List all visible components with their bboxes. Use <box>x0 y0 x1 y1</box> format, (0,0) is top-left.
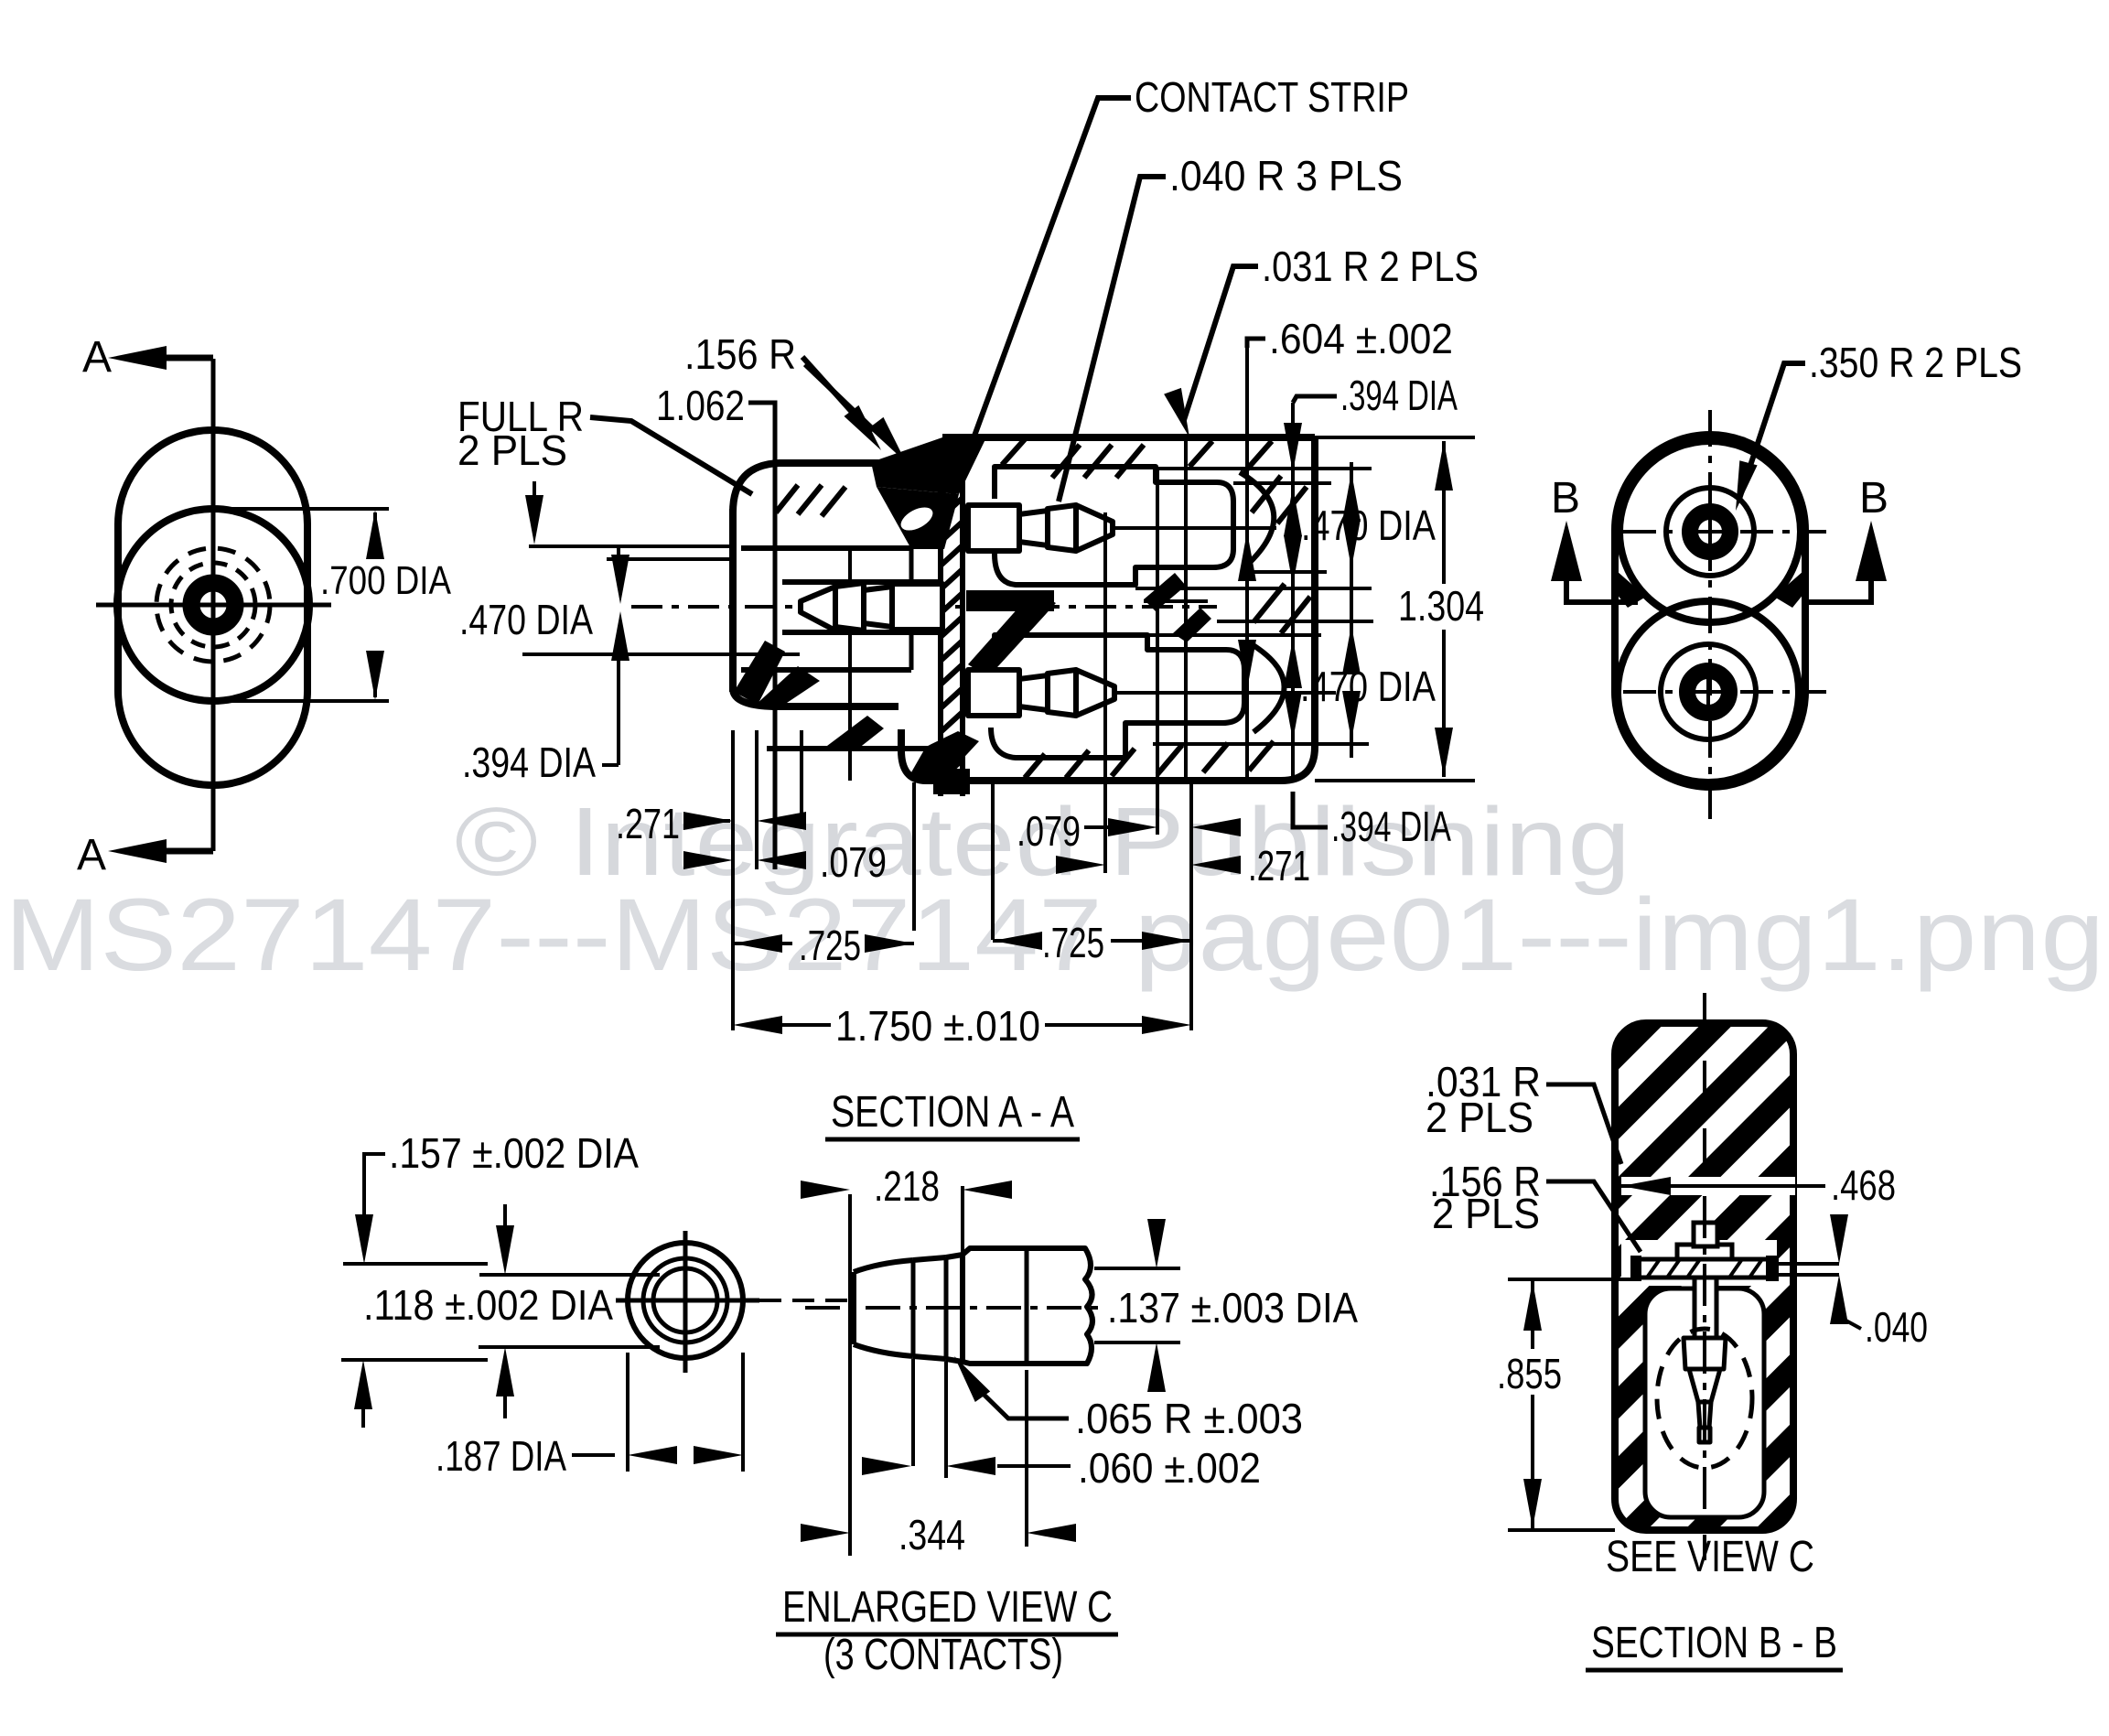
vertical ext x1265 inside body <box>1156 469 1159 781</box>
ext line x801 <box>731 730 735 1030</box>
lower contact centerline <box>1114 691 1336 695</box>
strip end blobs <box>1630 1256 1641 1281</box>
svg-text:.394 DIA: .394 DIA <box>1331 803 1451 850</box>
flange right inner wall upper <box>909 548 914 582</box>
svg-text:.855: .855 <box>1497 1350 1562 1397</box>
row .079 left <box>683 851 733 869</box>
row .271 right <box>1056 856 1105 874</box>
svg-text:2 PLS: 2 PLS <box>457 426 567 474</box>
view A dashed circle outer <box>156 548 270 662</box>
view B cutting plane right <box>1805 549 1871 602</box>
flange right inner wall lower <box>909 632 914 670</box>
svg-text:.187 DIA: .187 DIA <box>436 1432 566 1480</box>
body top edge <box>942 434 1315 441</box>
leader .031 R (B-B) <box>1546 1084 1621 1164</box>
hatch strokes right of cavities <box>1252 476 1310 633</box>
vertical .394 line <box>1291 403 1295 781</box>
svg-text:.271: .271 <box>1248 842 1310 890</box>
view B top contact ring <box>1690 512 1730 552</box>
svg-text:.725: .725 <box>799 922 861 969</box>
strip top cap <box>935 459 968 472</box>
view A top arrow line <box>137 355 213 361</box>
svg-text:.350 R 2 PLS: .350 R 2 PLS <box>1809 339 2022 386</box>
leader .040 R <box>1059 177 1166 501</box>
vertical x1477 line <box>1350 462 1353 505</box>
vertical .604 line <box>1245 348 1249 781</box>
centerline middle contact (dashed) <box>631 605 1217 609</box>
hook .394 right <box>1293 792 1328 827</box>
svg-text:.470 DIA: .470 DIA <box>459 596 593 643</box>
section B-B hatched body <box>1615 1023 1793 1530</box>
leader .604 hook <box>1247 339 1265 348</box>
lower cavity top <box>995 635 1244 677</box>
svg-text:ENLARGED VIEW C: ENLARGED VIEW C <box>782 1583 1113 1632</box>
ext line y597 <box>529 545 733 548</box>
contact strip cross-section B-B <box>1638 1259 1773 1278</box>
svg-text:.060 ±.002: .060 ±.002 <box>1078 1444 1261 1492</box>
section B-B centerline <box>1703 993 1706 1560</box>
row .725 right <box>993 932 1042 950</box>
shoulder to knurl <box>963 1248 1027 1255</box>
view B crosses <box>1690 513 1728 710</box>
body bottom-left step <box>901 729 926 781</box>
leader FULL R <box>590 417 752 494</box>
top contact <box>968 505 1113 551</box>
ext lines .157 <box>343 1262 488 1266</box>
ext line y715 <box>522 652 800 656</box>
svg-text:.031 R 2 PLS: .031 R 2 PLS <box>1262 243 1479 290</box>
view B top cavity outer circle <box>1619 441 1801 622</box>
row .725 left dim line <box>733 942 792 945</box>
dim .218 <box>850 1186 963 1556</box>
leaders .156 R <box>802 357 858 419</box>
view A arrowhead bottom <box>108 839 167 863</box>
svg-text:SEE VIEW C: SEE VIEW C <box>1606 1533 1814 1581</box>
svg-text:.725: .725 <box>1042 919 1104 966</box>
svg-text:.218: .218 <box>874 1162 940 1210</box>
arrow down toward centerline <box>611 555 629 604</box>
upper cavity right and bottom <box>995 501 1233 585</box>
view A outer circle <box>117 509 309 701</box>
black wedge below lip <box>823 716 884 749</box>
svg-text:.079: .079 <box>1017 807 1081 855</box>
view A horizontal centerline <box>96 603 331 608</box>
black band flange lower-left <box>734 641 785 705</box>
collar section <box>946 1255 963 1362</box>
view A dashed circle inner <box>171 563 255 647</box>
view A bottom arrow line <box>137 848 213 855</box>
dim line bits at x676 <box>617 548 620 564</box>
knurl block with broken edge <box>1027 1248 1092 1364</box>
svg-text:.604 ±.002: .604 ±.002 <box>1269 315 1453 362</box>
leader 1.062 hook and extension line <box>748 403 775 869</box>
ext line x999 <box>912 782 916 931</box>
view B top middle ring <box>1666 488 1754 576</box>
black blob strip bottom <box>933 769 970 794</box>
svg-text:A: A <box>82 333 112 382</box>
ext line x876 <box>800 730 803 821</box>
leader .350 R <box>1739 363 1805 499</box>
contact strip internal hatch <box>941 450 963 780</box>
svg-text:.157 ±.002 DIA: .157 ±.002 DIA <box>389 1129 639 1177</box>
vertical ext through body x1208 <box>1103 512 1107 781</box>
svg-text:.470 DIA: .470 DIA <box>1300 663 1436 710</box>
top contact centerline <box>1113 526 1276 530</box>
leader .031 R <box>1183 266 1258 423</box>
view A contact black ring <box>191 583 235 627</box>
view B bottom contact ring <box>1687 671 1729 713</box>
leader CONTACT STRIP <box>950 98 1131 503</box>
svg-text:1.062: 1.062 <box>656 382 745 429</box>
ext line x1208 below body <box>1103 782 1107 873</box>
ext line x1085 <box>991 782 995 940</box>
dim .855 <box>1508 1279 1638 1530</box>
ring line x998 <box>911 1260 916 1356</box>
flange lower lip <box>767 746 941 751</box>
svg-text:(3 CONTACTS): (3 CONTACTS) <box>823 1631 1063 1679</box>
hatch strokes top band <box>1002 439 1272 478</box>
bore arc right of upper cavity <box>1240 472 1274 569</box>
svg-text:.394 DIA: .394 DIA <box>1340 372 1458 419</box>
leader .156 R (B-B) <box>1546 1181 1641 1252</box>
upper cavity top <box>995 467 1233 501</box>
ext line y528 <box>1233 481 1331 485</box>
black band below (with relief) <box>877 487 959 549</box>
svg-text:1.750 ±.010: 1.750 ±.010 <box>835 1002 1040 1050</box>
vertical 1.304 dim line <box>1442 441 1446 584</box>
svg-text:.344: .344 <box>898 1511 965 1558</box>
centerline <box>805 1306 1103 1310</box>
ext line y657 short <box>1144 599 1208 603</box>
nose cone bottom <box>854 1344 913 1356</box>
row 1.750 <box>733 1016 782 1034</box>
black band top-left of block <box>871 437 986 494</box>
dim .065 R <box>966 1377 1069 1418</box>
leader .394 top hook <box>1293 396 1337 403</box>
flange inner bore bottom <box>741 667 911 673</box>
svg-text:.271: .271 <box>616 800 680 847</box>
right cluster arrows <box>1284 487 1302 536</box>
view C circle view <box>616 1231 855 1373</box>
nose face <box>851 1272 856 1344</box>
flange top edge <box>733 463 883 512</box>
ext line y611 <box>607 557 733 561</box>
view A cutting-plane centerline <box>211 359 216 851</box>
white cavity below strip <box>1645 1289 1764 1517</box>
svg-text:.156 R: .156 R <box>684 330 796 378</box>
view A arrowhead top <box>108 346 167 370</box>
contact head above strip <box>1677 1245 1732 1259</box>
middle bore bottom line <box>782 630 941 635</box>
row .725 right dim line <box>993 939 1039 943</box>
dim .344 <box>1025 1370 1028 1547</box>
ext lines .118 <box>479 1273 660 1277</box>
black band bottom-left of block <box>908 731 979 779</box>
ext line x1265 below body <box>1156 782 1159 835</box>
svg-text:2 PLS: 2 PLS <box>1426 1094 1533 1141</box>
dim .040 <box>1779 1264 1861 1329</box>
svg-text:.040 R 3 PLS: .040 R 3 PLS <box>1169 152 1403 199</box>
dim .137 <box>1094 1268 1180 1342</box>
svg-text:B: B <box>1551 474 1580 523</box>
svg-text:.065 R ±.003: .065 R ±.003 <box>1075 1395 1303 1442</box>
body right edge with rounded bottom corner <box>926 437 1315 781</box>
nose cone top <box>854 1260 913 1272</box>
arrow down at y597 <box>525 495 543 545</box>
hatch strokes flange chamfer <box>776 485 845 516</box>
view B bottom cavity outer circle <box>1618 601 1799 782</box>
stem .157 bottom arrow <box>361 1404 365 1428</box>
row .271 left line <box>684 819 730 823</box>
white halo for contact strip <box>1621 1240 1777 1286</box>
svg-text:.470 DIA: .470 DIA <box>1301 501 1436 549</box>
svg-text:2 PLS: 2 PLS <box>1432 1190 1540 1237</box>
row .079 right small line <box>1084 825 1109 829</box>
svg-text:A: A <box>77 831 106 879</box>
middle contact (points left) <box>801 583 942 631</box>
groove section <box>913 1257 946 1260</box>
bore arc right of lower cavity <box>1252 644 1285 732</box>
view B bottom middle ring <box>1661 644 1756 739</box>
top edge extension <box>1315 436 1475 439</box>
svg-text:.118 ±.002 DIA: .118 ±.002 DIA <box>363 1281 613 1329</box>
lower contact <box>968 670 1114 716</box>
dim .468 <box>1621 1177 1795 1195</box>
view B cutting plane left <box>1566 549 1638 602</box>
arrow up from .394 leader <box>611 611 629 661</box>
view B waist wedge right <box>1774 571 1804 608</box>
stem of upper-left arrow <box>533 481 536 505</box>
ext line y512 <box>1156 467 1372 470</box>
svg-text:.468: .468 <box>1831 1161 1896 1209</box>
white relief in black mass <box>898 502 937 534</box>
row .725 left <box>733 934 782 953</box>
black band mid Z diagonal <box>968 590 1056 677</box>
hatch strokes bottom band <box>1025 741 1274 778</box>
ext line y813 <box>1153 742 1369 746</box>
leader .394 left hook <box>602 763 619 767</box>
stems .118 arrows <box>503 1204 507 1231</box>
flange bottom edge <box>733 688 898 706</box>
svg-text:.394 DIA: .394 DIA <box>462 739 596 786</box>
bottom edge extension <box>1315 779 1475 782</box>
black band mid Z horizontal <box>966 590 1054 611</box>
black wedge right of middle bore <box>1144 573 1186 611</box>
flange inner bore top <box>741 545 911 551</box>
black wedge above lower cavity <box>1173 608 1211 642</box>
ext line y679 <box>1217 620 1373 623</box>
middle bore top line <box>782 579 941 585</box>
svg-text:.137 ±.003 DIA: .137 ±.003 DIA <box>1107 1284 1358 1332</box>
view B waist wedge left <box>1616 571 1646 608</box>
svg-text:1.304: 1.304 <box>1398 582 1484 630</box>
vertical ext through body x1296 <box>1184 441 1188 781</box>
svg-text:CONTACT STRIP: CONTACT STRIP <box>1135 73 1409 121</box>
svg-text:B: B <box>1859 474 1888 523</box>
bore wall line x929 <box>848 548 852 781</box>
contact strip left wall <box>938 447 943 796</box>
ext line y643 <box>1135 587 1372 590</box>
ext line y694 <box>1147 633 1321 637</box>
.700 DIA arrows <box>366 510 384 559</box>
contact body below strip <box>1684 1278 1726 1442</box>
view B stadium outline <box>1615 435 1805 787</box>
dim .060 <box>913 1359 1071 1478</box>
svg-text:.040: .040 <box>1865 1303 1928 1351</box>
dashed ellipse around contact <box>1657 1329 1752 1468</box>
leader .157 hook <box>364 1154 385 1222</box>
dimension .700 DIA extension lines <box>215 509 389 701</box>
row 1.750 dim line <box>782 1023 831 1027</box>
.118 arrows <box>496 1225 514 1275</box>
ext line y625 <box>1244 570 1327 574</box>
strip top black cap <box>936 445 967 459</box>
view B centerlines <box>1623 410 1826 819</box>
view C contact profile <box>805 1248 1103 1364</box>
.157 arrows <box>355 1214 373 1264</box>
svg-text:.700 DIA: .700 DIA <box>320 558 452 603</box>
ext line x827 <box>755 730 759 869</box>
contact strip right wall <box>960 447 965 796</box>
flange left face <box>729 509 737 692</box>
lower cavity right and bottom <box>991 670 1244 758</box>
view A body stadium outline <box>118 430 307 785</box>
black band flange lower mid <box>756 666 820 706</box>
strip hatch ticks <box>1647 1259 1762 1278</box>
svg-text:.079: .079 <box>820 838 887 886</box>
view A center cross <box>193 585 233 625</box>
svg-text:SECTION A - A: SECTION A - A <box>831 1088 1074 1137</box>
ext line x1302 <box>1189 782 1193 1030</box>
svg-text:SECTION B - B: SECTION B - B <box>1591 1619 1837 1667</box>
